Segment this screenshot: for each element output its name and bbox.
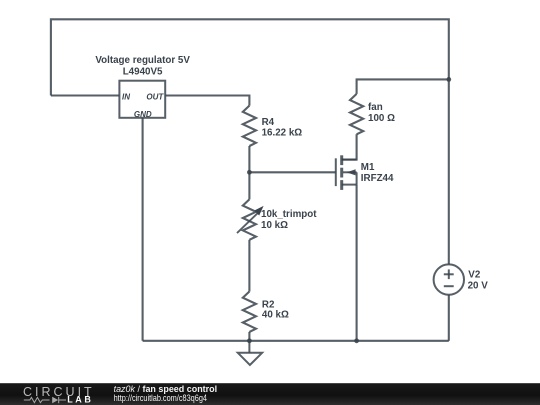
resistor R4 <box>243 106 256 146</box>
svg-text:20 V: 20 V <box>468 281 489 292</box>
svg-text:Voltage regulator 5V: Voltage regulator 5V <box>95 55 190 66</box>
svg-text:R4: R4 <box>262 117 275 128</box>
wire top net <box>51 19 449 264</box>
resistor R2 <box>243 292 256 332</box>
svg-text:16.22 kΩ: 16.22 kΩ <box>262 128 303 139</box>
wire GND pin <box>142 118 144 341</box>
wire node A to trimpot <box>248 172 250 199</box>
svg-text:OUT: OUT <box>146 93 164 102</box>
svg-text:10 kΩ: 10 kΩ <box>261 220 288 231</box>
wire trimpot to R2 <box>248 240 250 292</box>
svg-text:M1: M1 <box>361 162 375 173</box>
transistor M1 <box>336 155 357 190</box>
wire source to bottom <box>356 185 358 341</box>
node fan junction <box>446 77 451 82</box>
potentiometer arrow <box>237 206 264 233</box>
potentiometer 10k_trimpot <box>243 199 256 239</box>
svg-text:IN: IN <box>122 93 130 102</box>
ground <box>238 341 262 365</box>
wire fan top <box>357 79 449 94</box>
wire R2 to bottom net <box>248 332 250 341</box>
voltage source V2 <box>434 264 464 294</box>
wire gate <box>249 171 335 173</box>
node source junction <box>354 338 359 343</box>
wire bottom net <box>143 340 449 342</box>
wire R4 to node A <box>248 146 250 172</box>
wire OUT to R4 <box>165 96 249 106</box>
svg-text:100 Ω: 100 Ω <box>368 113 395 124</box>
svg-text:http://circuitlab.com/c83q6g4: http://circuitlab.com/c83q6g4 <box>114 393 207 404</box>
logo squiggle <box>24 397 66 403</box>
svg-text:L4940V5: L4940V5 <box>123 66 163 77</box>
svg-text:40 kΩ: 40 kΩ <box>262 310 289 321</box>
svg-text:V2: V2 <box>468 270 481 281</box>
voltage regulator U1 L4940V5 box <box>119 81 165 118</box>
resistor fan <box>350 94 363 134</box>
svg-text:GND: GND <box>134 110 152 119</box>
wire V2 bottom <box>448 295 450 341</box>
svg-text:fan: fan <box>368 102 383 113</box>
wire fan to drain <box>342 134 357 159</box>
node A junction <box>247 170 252 175</box>
svg-text:10k_trimpot: 10k_trimpot <box>261 209 317 220</box>
wire IN <box>51 94 120 96</box>
svg-text:LAB: LAB <box>67 395 93 405</box>
node ground junction <box>247 338 252 343</box>
svg-text:IRFZ44: IRFZ44 <box>361 173 394 184</box>
